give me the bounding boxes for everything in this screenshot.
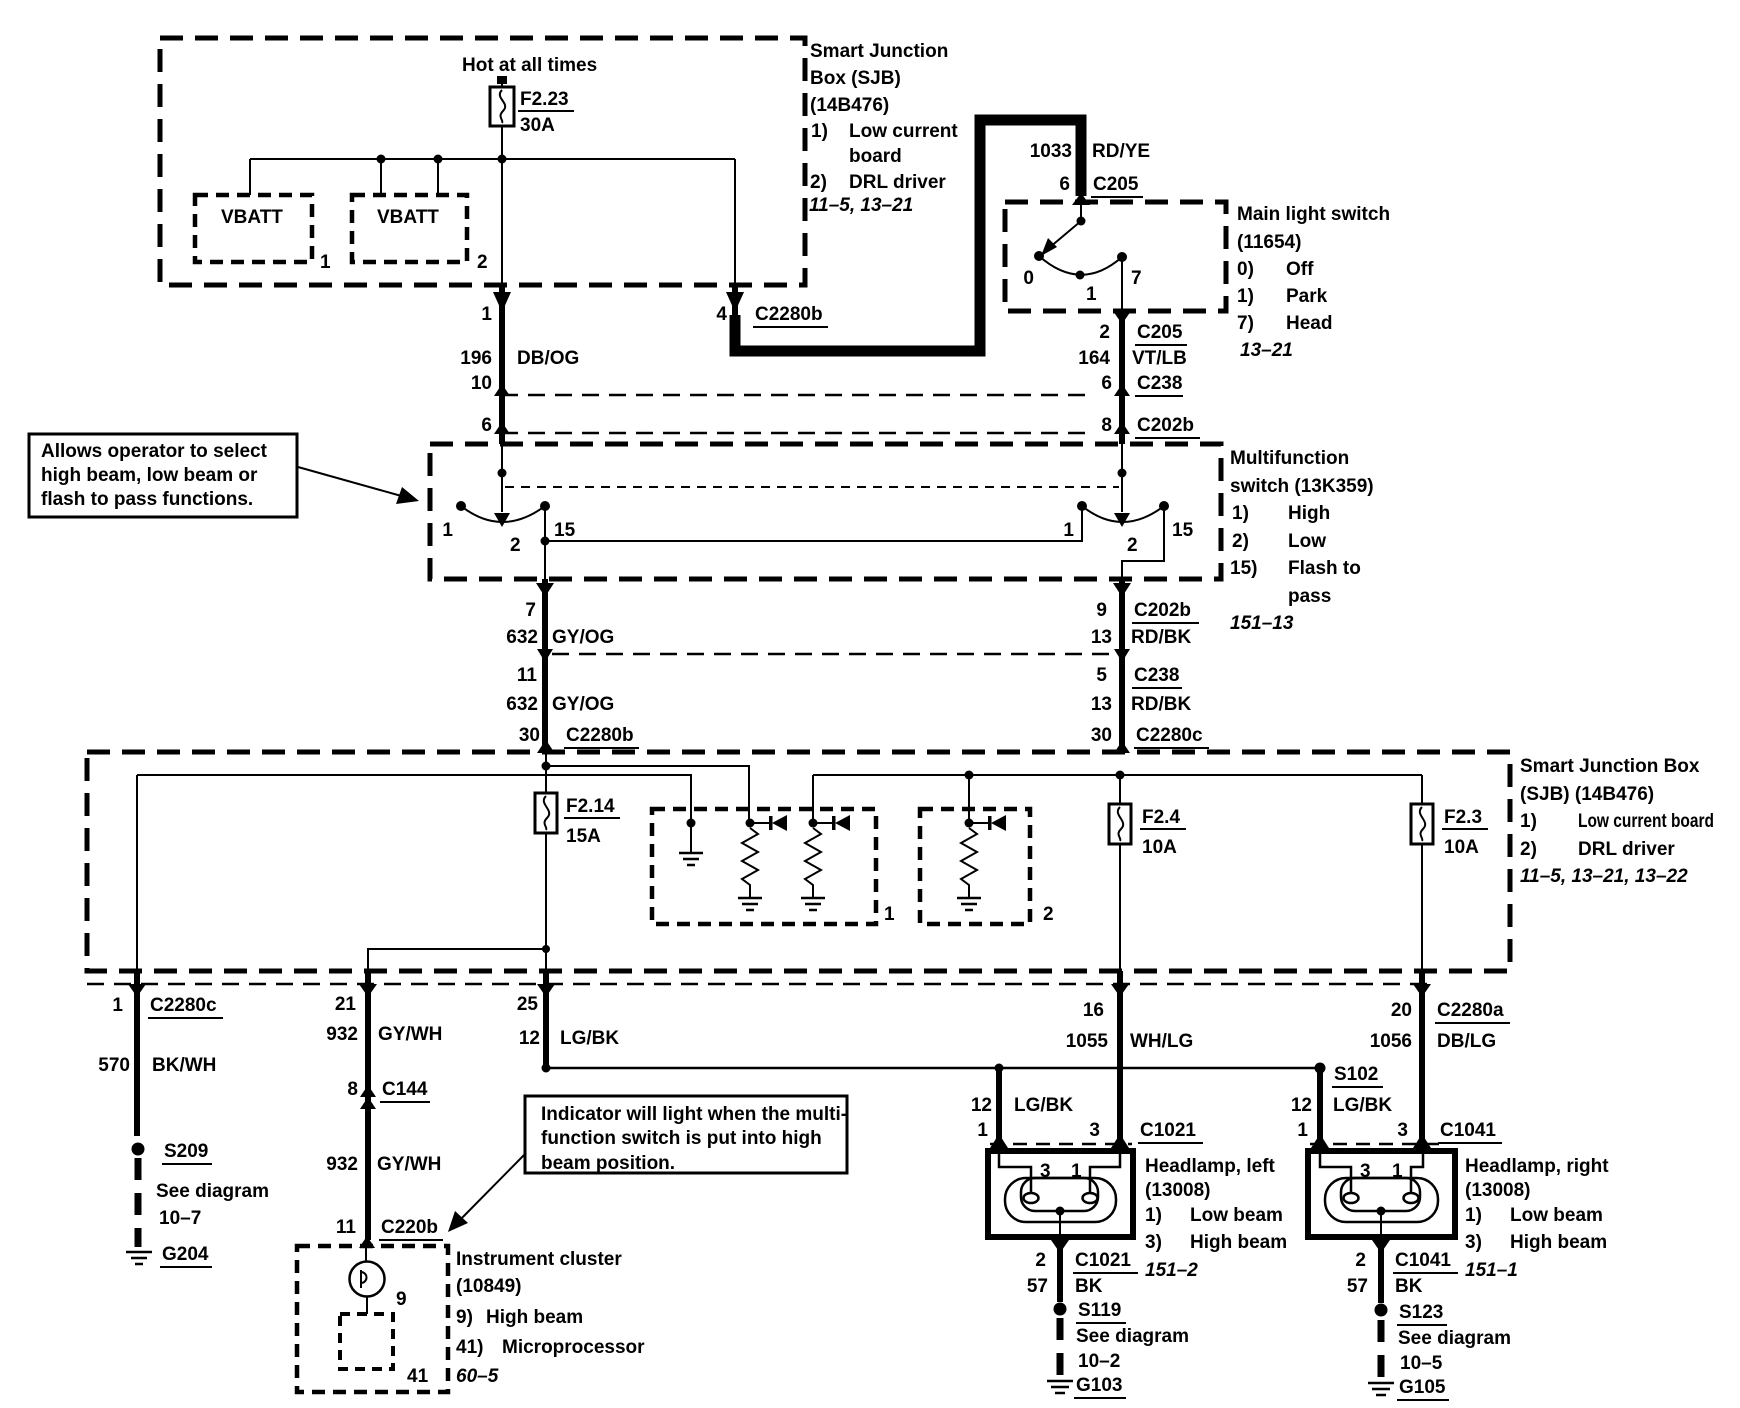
svg-text:GY/OG: GY/OG <box>552 694 614 715</box>
svg-text:(13008): (13008) <box>1465 1180 1531 1201</box>
Multifunction switch (13K359) dashed box <box>430 444 1221 579</box>
svg-text:60–5: 60–5 <box>456 1366 499 1387</box>
wire 12 LG/BK right headlamp stub <box>1317 1068 1323 1140</box>
svg-text:RD/BK: RD/BK <box>1131 627 1191 648</box>
svg-text:C144: C144 <box>382 1079 428 1100</box>
module sensor leg A (diode + resistor) <box>738 815 787 910</box>
svg-text:1: 1 <box>481 304 492 325</box>
Smart Junction Box (SJB) top dashed box <box>160 38 805 285</box>
headlamp left bulb <box>1005 1178 1116 1237</box>
svg-text:C202b: C202b <box>1137 415 1194 436</box>
connector C144 <box>360 1085 376 1097</box>
svg-text:C202b: C202b <box>1134 600 1191 621</box>
svg-text:DRL driver: DRL driver <box>849 172 946 193</box>
svg-text:41): 41) <box>456 1337 483 1358</box>
svg-text:Headlamp, left: Headlamp, left <box>1145 1156 1276 1177</box>
mechanical link dashed line <box>505 486 1119 488</box>
headlamp left connector dashed line <box>990 1143 1132 1146</box>
fuse F2.3 10A <box>1411 804 1488 858</box>
svg-text:Flash to: Flash to <box>1288 558 1361 579</box>
svg-text:20: 20 <box>1391 1000 1412 1021</box>
svg-text:Off: Off <box>1286 259 1314 280</box>
headlamp right ground exit arrow <box>1372 1240 1390 1253</box>
svg-text:196: 196 <box>460 348 492 369</box>
svg-text:30: 30 <box>519 725 540 746</box>
svg-text:beam position.: beam position. <box>541 1153 675 1174</box>
svg-text:4: 4 <box>716 304 727 325</box>
switch wiper arm with arrow <box>1043 221 1081 253</box>
svg-text:GY/WH: GY/WH <box>377 1154 441 1175</box>
lamp out module 2 dashed box <box>920 809 1030 924</box>
svg-text:13: 13 <box>1091 694 1112 715</box>
svg-text:15A: 15A <box>566 826 601 847</box>
svg-text:C1021: C1021 <box>1075 1250 1131 1271</box>
svg-text:Instrument cluster: Instrument cluster <box>456 1249 622 1270</box>
svg-text:high beam, low beam or: high beam, low beam or <box>41 465 258 486</box>
svg-text:C220b: C220b <box>381 1217 438 1238</box>
svg-text:C238: C238 <box>1134 665 1179 686</box>
svg-text:1): 1) <box>1145 1205 1162 1226</box>
svg-text:C205: C205 <box>1137 322 1183 343</box>
wire internal ground bus <box>137 775 691 971</box>
headlamp left internal pins <box>999 1151 1120 1192</box>
wire switch wiper feed <box>1080 202 1082 221</box>
svg-text:11–5, 13–21: 11–5, 13–21 <box>809 195 913 216</box>
svg-text:GY/WH: GY/WH <box>378 1024 442 1045</box>
headlamp left ground exit arrow <box>1051 1240 1069 1253</box>
connector crossing dashed line below switch <box>552 653 1117 656</box>
svg-text:F2.23: F2.23 <box>520 89 569 110</box>
node contact 7 <box>1117 252 1127 262</box>
fuse F2.14 15A <box>535 793 620 847</box>
ground G204 <box>126 1244 212 1267</box>
Smart Junction Box (SJB) lower dashed box <box>87 752 1510 971</box>
svg-text:DB/OG: DB/OG <box>517 348 579 369</box>
pin 30 entry arrow <box>538 740 554 752</box>
ground G105 <box>1368 1377 1449 1400</box>
multifunction switch left wiper feed <box>501 444 503 512</box>
svg-text:Head: Head <box>1286 313 1332 334</box>
lamp high beam indicator bulb <box>350 1262 407 1311</box>
splice S119 <box>1054 1303 1067 1316</box>
svg-text:1: 1 <box>1086 284 1097 305</box>
svg-text:RD/YE: RD/YE <box>1092 141 1150 162</box>
svg-text:VBATT: VBATT <box>377 207 439 228</box>
svg-text:8: 8 <box>347 1079 358 1100</box>
svg-text:LG/BK: LG/BK <box>1333 1095 1392 1116</box>
svg-text:1056: 1056 <box>1370 1031 1412 1052</box>
svg-text:7: 7 <box>1131 268 1142 289</box>
svg-text:C2280c: C2280c <box>1136 725 1203 746</box>
Main light switch label block <box>1237 204 1390 361</box>
svg-text:13: 13 <box>1091 627 1112 648</box>
svg-text:16: 16 <box>1083 1000 1104 1021</box>
svg-text:15: 15 <box>554 520 576 541</box>
svg-text:2: 2 <box>1035 1250 1046 1271</box>
svg-text:Smart Junction: Smart Junction <box>810 41 948 62</box>
svg-text:1: 1 <box>884 904 895 925</box>
microprocessor dashed box <box>340 1314 393 1369</box>
svg-text:6: 6 <box>1101 373 1112 394</box>
svg-text:Headlamp, right: Headlamp, right <box>1465 1156 1609 1177</box>
svg-text:30A: 30A <box>520 115 555 136</box>
svg-text:VBATT: VBATT <box>221 207 283 228</box>
left switch arc <box>461 506 545 522</box>
wire internal bus to lamp-out module feed <box>546 766 749 823</box>
svg-text:1): 1) <box>1520 811 1537 832</box>
wire 632 GY/OG (thick) below multifunction switch <box>542 579 548 752</box>
svg-text:Low beam: Low beam <box>1190 1205 1283 1226</box>
svg-text:function switch is put into hi: function switch is put into high <box>541 1128 822 1149</box>
svg-text:1: 1 <box>112 995 123 1016</box>
svg-text:10–5: 10–5 <box>1400 1353 1443 1374</box>
svg-text:pass: pass <box>1288 586 1331 607</box>
svg-text:BK/WH: BK/WH <box>152 1055 216 1076</box>
splice S123 <box>1375 1304 1388 1317</box>
right switch arc <box>1082 506 1164 522</box>
svg-text:10: 10 <box>471 373 492 394</box>
wire dashed to ground G103 <box>1057 1318 1064 1377</box>
svg-text:9): 9) <box>456 1307 473 1328</box>
svg-text:151–13: 151–13 <box>1230 613 1294 634</box>
headlamp right bulb <box>1325 1178 1438 1237</box>
svg-text:Park: Park <box>1286 286 1328 307</box>
svg-text:12: 12 <box>971 1095 992 1116</box>
fuse F2.4 10A <box>1109 804 1186 858</box>
svg-text:10–2: 10–2 <box>1078 1351 1120 1372</box>
node left contact 1 <box>456 501 466 511</box>
wire dashed to ground G105 <box>1378 1320 1385 1379</box>
ground G103 <box>1047 1375 1126 1398</box>
connector C202b dashed crossing line <box>501 432 1089 435</box>
svg-text:5: 5 <box>1096 665 1107 686</box>
svg-text:1055: 1055 <box>1066 1031 1109 1052</box>
svg-text:WH/LG: WH/LG <box>1130 1031 1193 1052</box>
svg-text:11–5, 13–21, 13–22: 11–5, 13–21, 13–22 <box>1520 866 1688 887</box>
svg-text:Indicator will light when the: Indicator will light when the multi- <box>541 1104 847 1125</box>
svg-text:6: 6 <box>1059 174 1070 195</box>
svg-text:632: 632 <box>506 694 538 715</box>
svg-text:(14B476): (14B476) <box>810 95 889 116</box>
wire 13 RD/BK (thick) below multifunction switch <box>1119 579 1125 752</box>
svg-text:2: 2 <box>1127 535 1138 556</box>
wire below F2.4 to pin 16 <box>1119 844 1121 971</box>
svg-text:57: 57 <box>1027 1276 1048 1297</box>
headlamp left (13008) box <box>988 1151 1133 1237</box>
svg-text:BK: BK <box>1075 1276 1103 1297</box>
svg-text:8: 8 <box>1101 415 1112 436</box>
node right contact 15 <box>1159 501 1169 511</box>
svg-text:High beam: High beam <box>486 1307 583 1328</box>
svg-text:C2280a: C2280a <box>1437 1000 1504 1021</box>
wire right 15 loop to output <box>1122 506 1164 579</box>
wire below F2.3 to pin 20 <box>1421 844 1423 971</box>
svg-text:1): 1) <box>1237 286 1254 307</box>
svg-text:30: 30 <box>1091 725 1112 746</box>
svg-text:3): 3) <box>1465 1232 1482 1253</box>
wire flash-to-pass link <box>545 506 1082 541</box>
svg-text:switch (13K359): switch (13K359) <box>1230 476 1374 497</box>
svg-text:2: 2 <box>1099 322 1110 343</box>
svg-text:S119: S119 <box>1078 1300 1121 1321</box>
svg-text:VT/LB: VT/LB <box>1132 348 1187 369</box>
headlamp right label block <box>1465 1156 1609 1281</box>
svg-text:See diagram: See diagram <box>1076 1326 1189 1347</box>
svg-text:15): 15) <box>1230 558 1257 579</box>
wire dashed to ground G204 <box>135 1158 142 1247</box>
svg-text:1): 1) <box>1232 503 1249 524</box>
wire 12 LG/BK (thick) <box>543 971 549 1068</box>
svg-text:1: 1 <box>442 520 453 541</box>
svg-text:Box (SJB): Box (SJB) <box>810 68 901 89</box>
svg-text:DRL driver: DRL driver <box>1578 839 1675 860</box>
multifunction switch right wiper feed <box>1121 444 1123 512</box>
svg-text:Main light switch: Main light switch <box>1237 204 1390 225</box>
svg-text:11: 11 <box>336 1217 357 1238</box>
svg-text:G204: G204 <box>162 1244 209 1265</box>
wire from contact 7 down <box>1121 257 1123 311</box>
fuse F2.23 30A <box>490 87 574 136</box>
svg-text:Allows operator to select: Allows operator to select <box>41 441 268 462</box>
splice S209 <box>132 1143 145 1156</box>
svg-text:DB/LG: DB/LG <box>1437 1031 1496 1052</box>
wire to splice S102 <box>546 1067 1320 1070</box>
svg-text:10A: 10A <box>1444 837 1479 858</box>
VBATT box 2 <box>352 195 488 273</box>
callout note: allows operator to select <box>29 434 297 517</box>
wire below F2.14 to pins 21/25 <box>368 833 546 971</box>
svg-text:Smart Junction Box: Smart Junction Box <box>1520 756 1700 777</box>
module 2 sensor leg (diode + resistor) <box>957 815 1006 910</box>
wire 570 BK/WH (thick) <box>134 971 140 1136</box>
svg-text:(11654): (11654) <box>1237 232 1301 253</box>
svg-text:25: 25 <box>517 994 539 1015</box>
svg-text:9: 9 <box>396 1289 407 1310</box>
svg-text:164: 164 <box>1078 348 1110 369</box>
svg-text:Low beam: Low beam <box>1510 1205 1603 1226</box>
pin 2 exit arrow of main light switch <box>1113 311 1131 324</box>
node junction dots on VBATT bus <box>377 155 386 164</box>
wire 57 BK (thick) left <box>1057 1237 1063 1302</box>
headlamp right internal pins <box>1320 1151 1423 1192</box>
headlamp left label block <box>1145 1156 1287 1281</box>
svg-text:12: 12 <box>519 1028 540 1049</box>
Main light switch (11654) dashed box <box>1005 202 1226 311</box>
callout note: indicator will light <box>525 1096 847 1174</box>
svg-text:S209: S209 <box>164 1141 208 1162</box>
switch arc through positions 0-1-7 <box>1039 256 1122 275</box>
node junction left lamp stub <box>995 1064 1004 1073</box>
wire 932 GY/WH (thick) upper <box>365 971 371 1240</box>
svg-text:1: 1 <box>1297 1120 1308 1141</box>
svg-text:F2.4: F2.4 <box>1142 807 1180 828</box>
svg-text:LG/BK: LG/BK <box>560 1028 619 1049</box>
node right contact 1 <box>1077 501 1087 511</box>
svg-text:151–2: 151–2 <box>1145 1260 1198 1281</box>
splice S102 <box>1315 1063 1326 1074</box>
lamp out module 1 dashed box <box>652 809 876 924</box>
svg-text:See diagram: See diagram <box>156 1181 269 1202</box>
svg-text:2): 2) <box>810 172 827 193</box>
svg-text:See diagram: See diagram <box>1398 1328 1511 1349</box>
svg-text:151–1: 151–1 <box>1465 1260 1518 1281</box>
svg-text:10A: 10A <box>1142 837 1177 858</box>
svg-text:RD/BK: RD/BK <box>1131 694 1191 715</box>
svg-text:High beam: High beam <box>1190 1232 1287 1253</box>
wire heavy bus from pin 4 to main light switch <box>732 285 738 320</box>
svg-text:S123: S123 <box>1399 1302 1443 1323</box>
svg-text:1: 1 <box>977 1120 988 1141</box>
svg-text:9: 9 <box>1096 600 1107 621</box>
svg-text:0: 0 <box>1023 268 1034 289</box>
svg-text:1): 1) <box>811 121 828 142</box>
svg-text:932: 932 <box>326 1024 358 1045</box>
svg-text:1033: 1033 <box>1030 141 1072 162</box>
svg-text:Low: Low <box>1288 531 1326 552</box>
svg-text:7): 7) <box>1237 313 1254 334</box>
svg-text:13–21: 13–21 <box>1240 340 1293 361</box>
main light switch entry arrow <box>1072 193 1090 205</box>
callout arrow to multifunction switch <box>298 467 405 497</box>
wire VBATT bus <box>250 159 735 285</box>
module ground leg <box>679 819 703 866</box>
svg-text:Microprocessor: Microprocessor <box>502 1337 645 1358</box>
svg-text:G103: G103 <box>1076 1375 1122 1396</box>
Instrument cluster (10849) dashed box <box>297 1246 448 1392</box>
svg-text:2: 2 <box>477 252 488 273</box>
SJB top label block <box>809 41 958 216</box>
wire 57 BK (thick) right <box>1378 1237 1384 1303</box>
SJB lower label block <box>1520 756 1714 887</box>
svg-text:(10849): (10849) <box>456 1276 522 1297</box>
svg-text:7: 7 <box>525 600 536 621</box>
svg-text:3): 3) <box>1145 1232 1162 1253</box>
svg-text:Low current: Low current <box>849 121 958 142</box>
callout arrow to C220b <box>456 1153 526 1224</box>
svg-text:board: board <box>849 146 902 167</box>
svg-text:C1041: C1041 <box>1440 1120 1496 1141</box>
wire 164 VT/LB (thick) <box>1119 311 1125 444</box>
svg-text:C1021: C1021 <box>1140 1120 1196 1141</box>
wire internal feed bus to fuses F2.4 F2.3 <box>813 775 1422 823</box>
svg-text:632: 632 <box>506 627 538 648</box>
svg-text:932: 932 <box>326 1154 358 1175</box>
wire 1056 DB/LG (thick) pin 20 to right headlamp <box>1419 971 1425 1140</box>
svg-text:High: High <box>1288 503 1330 524</box>
svg-text:Hot at all times: Hot at all times <box>462 55 597 76</box>
pin 25 exit arrow <box>537 984 555 997</box>
svg-text:3: 3 <box>1397 1120 1408 1141</box>
node contact 0 <box>1034 251 1044 261</box>
VBATT box 1 <box>195 195 331 273</box>
svg-text:C2280c: C2280c <box>150 995 217 1016</box>
svg-text:11: 11 <box>517 665 538 686</box>
svg-text:F2.14: F2.14 <box>566 796 615 817</box>
connector C220b <box>359 1236 375 1248</box>
svg-text:2: 2 <box>1355 1250 1366 1271</box>
svg-text:0): 0) <box>1237 259 1254 280</box>
pin 20 exit arrow and connector C2280a <box>1413 984 1431 997</box>
svg-text:3: 3 <box>1089 1120 1100 1141</box>
wire bulb to microprocessor <box>366 1296 368 1314</box>
svg-text:C238: C238 <box>1137 373 1182 394</box>
svg-text:LG/BK: LG/BK <box>1014 1095 1073 1116</box>
svg-text:2: 2 <box>510 535 521 556</box>
svg-text:41: 41 <box>407 1366 429 1387</box>
svg-text:BK: BK <box>1395 1276 1423 1297</box>
wire into cluster <box>365 1246 367 1262</box>
connector C238 dashed crossing line <box>501 394 1086 397</box>
svg-text:21: 21 <box>335 994 357 1015</box>
svg-text:57: 57 <box>1347 1276 1368 1297</box>
svg-text:GY/OG: GY/OG <box>552 627 614 648</box>
pin 1 exit arrow and label C2280c <box>128 984 146 997</box>
wire 1055 WH/LG (thick) pin 16 to left headlamp <box>1117 971 1123 1140</box>
svg-text:Low current board: Low current board <box>1578 811 1714 832</box>
wire 12 LG/BK left headlamp stub <box>996 1068 1002 1140</box>
svg-text:1): 1) <box>1465 1205 1482 1226</box>
svg-text:G105: G105 <box>1399 1377 1446 1398</box>
Multifunction switch label block <box>1230 448 1374 634</box>
headlamp right connector dashed line <box>1310 1143 1444 1146</box>
wire 196 DB/OG (thick) from SJB pin 1 <box>499 285 505 444</box>
svg-text:S102: S102 <box>1334 1064 1378 1085</box>
svg-text:F2.3: F2.3 <box>1444 807 1482 828</box>
headlamp right (13008) box <box>1308 1151 1455 1237</box>
svg-text:15: 15 <box>1172 520 1194 541</box>
svg-text:10–7: 10–7 <box>159 1208 201 1229</box>
svg-text:High beam: High beam <box>1510 1232 1607 1253</box>
wire pin30 to fuse F2.14 <box>545 752 547 793</box>
svg-text:6: 6 <box>481 415 492 436</box>
svg-text:Multifunction: Multifunction <box>1230 448 1349 469</box>
connector dashed line under SJB <box>87 983 1430 986</box>
pin 21 exit arrow <box>359 984 377 997</box>
wire stub above fuse <box>497 76 507 84</box>
svg-text:C205: C205 <box>1093 174 1139 195</box>
svg-text:1: 1 <box>1063 520 1074 541</box>
svg-text:570: 570 <box>98 1055 130 1076</box>
svg-text:2): 2) <box>1520 839 1537 860</box>
svg-text:(SJB) (14B476): (SJB) (14B476) <box>1520 784 1654 805</box>
wire left output <box>544 506 546 579</box>
svg-text:C1041: C1041 <box>1395 1250 1451 1271</box>
svg-text:12: 12 <box>1291 1095 1312 1116</box>
node left contact 15 <box>540 501 550 511</box>
instrument cluster label block <box>456 1249 645 1387</box>
svg-text:flash to pass functions.: flash to pass functions. <box>41 489 253 510</box>
wire fuse F2.23 to SJB bottom <box>501 126 503 285</box>
svg-text:(13008): (13008) <box>1145 1180 1211 1201</box>
svg-text:2: 2 <box>1043 904 1054 925</box>
module sensor leg B (diode + resistor) <box>801 815 850 910</box>
svg-text:C2280b: C2280b <box>755 304 823 325</box>
svg-text:1: 1 <box>320 252 331 273</box>
svg-text:2): 2) <box>1232 531 1249 552</box>
svg-text:C2280b: C2280b <box>566 725 634 746</box>
